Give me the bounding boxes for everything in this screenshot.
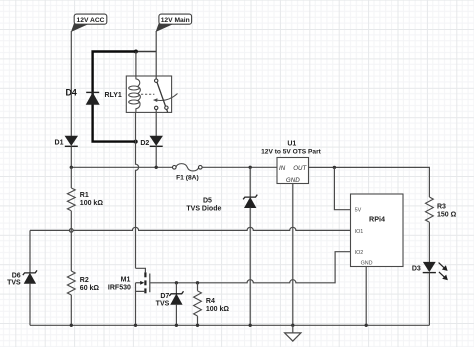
svg-text:5V: 5V bbox=[355, 208, 362, 214]
gate net wire with hops bbox=[150, 252, 351, 283]
wire D1 to rail bbox=[70, 146, 72, 167]
svg-text:RPi4: RPi4 bbox=[369, 215, 385, 224]
wire U1 GND down bbox=[292, 184, 294, 326]
relay switch blade bbox=[157, 82, 168, 112]
svg-text:R2: R2 bbox=[80, 277, 89, 284]
wire R3 to D3 bbox=[428, 222, 430, 262]
svg-text:TVS Diode: TVS Diode bbox=[186, 205, 221, 212]
junction dot D7/ground bbox=[175, 324, 178, 327]
svg-text:OUT: OUT bbox=[293, 165, 307, 172]
wire D6 to ground rail bbox=[29, 283, 31, 325]
diode D4 bbox=[66, 87, 100, 104]
lower rail (IO1 net) with hops bbox=[30, 227, 351, 230]
resistor R2 bbox=[67, 230, 99, 325]
svg-text:D4: D4 bbox=[66, 87, 77, 97]
svg-text:GND: GND bbox=[286, 177, 300, 184]
relay dashed link bbox=[141, 93, 154, 95]
relay contact top bbox=[155, 79, 158, 82]
junction dot D5/ground bbox=[249, 324, 252, 327]
svg-text:100 kΩ: 100 kΩ bbox=[80, 200, 104, 207]
svg-text:60 kΩ: 60 kΩ bbox=[80, 285, 100, 292]
wire relay coil column to MOSFET drain bbox=[136, 112, 139, 268]
svg-text:D7: D7 bbox=[160, 293, 169, 300]
resistor R1 bbox=[67, 167, 103, 230]
svg-text:D6: D6 bbox=[12, 272, 21, 279]
net flag 12V Main bbox=[156, 14, 191, 31]
LED D3 bbox=[412, 262, 448, 280]
TVS diode D5 bbox=[186, 167, 257, 325]
net flag 12V ACC bbox=[72, 14, 107, 31]
wire 5V to RPi4 bbox=[334, 167, 350, 209]
wire lower rail to D6 bbox=[29, 230, 31, 273]
relay switch pin stubs bbox=[155, 76, 157, 79]
resistor R4 bbox=[194, 283, 230, 326]
svg-text:RLY1: RLY1 bbox=[105, 92, 122, 99]
svg-text:IN: IN bbox=[279, 165, 286, 172]
svg-text:12V Main: 12V Main bbox=[161, 17, 190, 24]
svg-text:R1: R1 bbox=[80, 192, 89, 199]
ground rail bbox=[30, 324, 429, 326]
svg-text:12V ACC: 12V ACC bbox=[77, 17, 105, 24]
svg-text:TVS: TVS bbox=[7, 280, 21, 287]
resistor R3 bbox=[426, 197, 457, 222]
svg-text:D5: D5 bbox=[203, 198, 212, 205]
svg-text:D2: D2 bbox=[140, 140, 149, 147]
junction dot RPi4 GND/ground bbox=[365, 324, 368, 327]
svg-text:150 Ω: 150 Ω bbox=[437, 211, 457, 218]
wire U1 OUT to R3 corner bbox=[309, 167, 430, 197]
wire MOSFET source to ground rail bbox=[135, 291, 137, 325]
svg-text:IRF530: IRF530 bbox=[108, 285, 131, 292]
wire 12V Main to relay switch bbox=[155, 31, 157, 76]
junction dot gate/R4 bbox=[196, 281, 199, 284]
wire RPi4 GND down bbox=[365, 267, 367, 326]
wire D2 to rail bbox=[155, 146, 157, 167]
TVS diode D6 bbox=[7, 270, 37, 286]
open junction R1/R2 bbox=[70, 229, 74, 233]
junction dot U1 GND/ground bbox=[291, 324, 294, 327]
fuse F1 bbox=[173, 164, 203, 182]
junction dot M1/ground bbox=[134, 324, 137, 327]
wire junction to relay coil top bbox=[135, 52, 137, 77]
svg-text:D1: D1 bbox=[55, 139, 64, 146]
svg-text:IO1: IO1 bbox=[355, 229, 364, 235]
svg-text:M1: M1 bbox=[121, 276, 131, 283]
junction dot coil top bbox=[134, 50, 138, 54]
wire relay to D2 bbox=[155, 112, 157, 136]
wire junction to 12V Main bbox=[136, 51, 156, 53]
svg-text:U1: U1 bbox=[287, 141, 296, 148]
svg-text:GND: GND bbox=[361, 261, 373, 267]
junction dot D2/rail bbox=[155, 166, 158, 169]
main 12V rail left segment with hop bbox=[71, 166, 173, 168]
svg-text:100 kΩ: 100 kΩ bbox=[206, 306, 230, 313]
relay contact bottom common bbox=[155, 106, 158, 109]
junction dot 5V branch bbox=[333, 166, 336, 169]
svg-text:IO2: IO2 bbox=[355, 250, 364, 256]
wire D3 to ground rail bbox=[428, 273, 430, 326]
svg-text:D3: D3 bbox=[412, 266, 421, 273]
svg-text:R4: R4 bbox=[206, 298, 215, 305]
relay coil bbox=[136, 76, 140, 86]
junction dot coil bottom bbox=[134, 140, 138, 144]
relay RLY1 bbox=[105, 76, 178, 112]
svg-text:TVS: TVS bbox=[156, 301, 170, 308]
wire 12V ACC to D1 bbox=[70, 31, 72, 136]
junction dot R4/ground bbox=[196, 324, 199, 327]
diode D2 bbox=[140, 136, 162, 147]
relay actuation arrow bbox=[157, 94, 178, 101]
svg-text:12V to 5V OTS Part: 12V to 5V OTS Part bbox=[261, 148, 322, 155]
RPi4 U2 bbox=[351, 194, 404, 267]
relay contact bottom NO bbox=[165, 106, 168, 109]
junction dot D1/rail bbox=[70, 166, 73, 169]
junction dot D5 branch bbox=[249, 166, 252, 169]
rail fuse to U1 bbox=[202, 166, 277, 168]
diode D1 bbox=[55, 136, 78, 146]
regulator U1 bbox=[261, 141, 322, 185]
thick flyback wire around relay coil bbox=[93, 52, 136, 142]
svg-text:F1 (8A): F1 (8A) bbox=[176, 175, 199, 182]
TVS diode D7 bbox=[156, 283, 184, 326]
svg-text:R3: R3 bbox=[437, 204, 446, 211]
ground symbol bbox=[285, 325, 301, 341]
junction dot gate/D7 bbox=[175, 281, 178, 284]
MOSFET M1 bbox=[108, 268, 150, 293]
junction dot R2/ground bbox=[70, 324, 73, 327]
